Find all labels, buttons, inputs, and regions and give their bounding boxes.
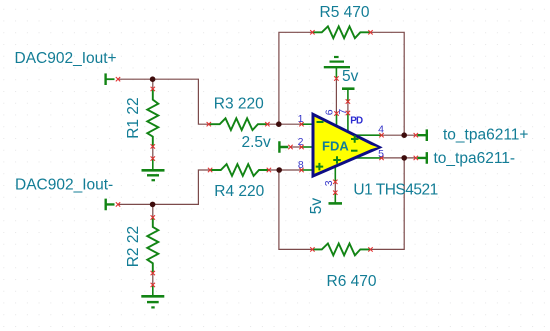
svg-text:DAC902_Iout+: DAC902_Iout+: [15, 50, 117, 67]
svg-text:4: 4: [378, 124, 384, 136]
svg-text:1: 1: [298, 113, 304, 125]
svg-text:U1 THS4521: U1 THS4521: [353, 181, 437, 198]
svg-text:R5 470: R5 470: [320, 4, 370, 21]
svg-text:DAC902_Iout-: DAC902_Iout-: [15, 177, 113, 194]
svg-text:FDA: FDA: [322, 139, 349, 154]
svg-text:R3 220: R3 220: [214, 96, 264, 113]
svg-text:7: 7: [337, 109, 349, 115]
svg-text:2.5v: 2.5v: [242, 134, 272, 151]
svg-text:to_tpa6211+: to_tpa6211+: [443, 127, 528, 144]
svg-text:3: 3: [323, 180, 335, 186]
svg-text:R6 470: R6 470: [327, 273, 377, 290]
svg-text:5v: 5v: [342, 68, 359, 85]
svg-text:5: 5: [378, 148, 384, 160]
svg-text:R4 220: R4 220: [214, 183, 264, 200]
svg-text:5v: 5v: [308, 198, 325, 215]
svg-text:PD: PD: [350, 116, 363, 127]
svg-text:6: 6: [324, 109, 336, 115]
svg-text:R2 22: R2 22: [125, 226, 142, 267]
svg-text:8: 8: [298, 159, 304, 171]
svg-text:R1 22: R1 22: [125, 97, 142, 138]
svg-text:to_tpa6211-: to_tpa6211-: [434, 150, 516, 167]
svg-text:2: 2: [298, 136, 304, 148]
